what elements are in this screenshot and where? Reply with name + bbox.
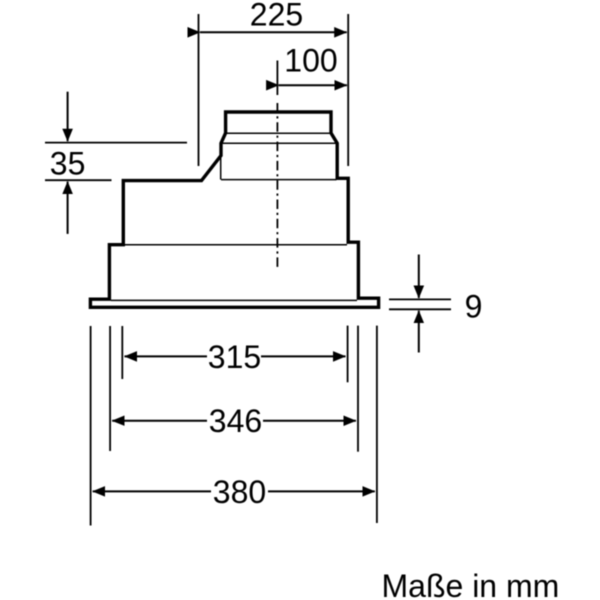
dim 35 upper arrow	[67, 92, 69, 142]
centerline stub	[276, 61, 278, 96]
dim 346 left arrow line	[112, 420, 207, 422]
svg-text:315: 315	[208, 339, 261, 375]
dim 225 left extension line	[198, 14, 200, 166]
dim 380 right arrow line	[268, 490, 375, 492]
dim 35 lower arrow	[67, 182, 69, 234]
dim 35 upper reference line	[45, 142, 187, 144]
hood top hidden edge	[221, 179, 337, 181]
dim 9 upper arrow	[418, 255, 420, 299]
svg-text:35: 35	[50, 146, 86, 182]
dim 35 lower reference line	[45, 179, 112, 181]
dim 9 top line	[389, 298, 451, 300]
hood outline	[90, 112, 378, 307]
bottom extension line left 380	[90, 326, 92, 526]
dim 100 arrow line	[279, 84, 347, 86]
dim 225 arrow line	[200, 31, 347, 33]
dim 225 right extension line	[347, 14, 349, 166]
svg-text:100: 100	[284, 43, 337, 79]
flange top thin line	[111, 299, 357, 301]
bottom extension line right 380	[376, 326, 378, 523]
svg-text:9: 9	[465, 289, 483, 325]
dim 9 lower arrow	[418, 311, 420, 353]
svg-text:346: 346	[209, 403, 262, 439]
dim 9 bottom line	[389, 308, 451, 310]
bottom extension line right 315	[347, 326, 349, 383]
svg-text:225: 225	[250, 0, 303, 32]
bottom extension line left 315	[121, 326, 123, 379]
dim 315 left arrow line	[125, 355, 208, 357]
svg-text:Maße in mm: Maße in mm	[382, 568, 560, 600]
collar flare upper thin line	[226, 132, 331, 134]
body step thin line	[125, 244, 347, 246]
bottom extension line right 346	[357, 326, 359, 452]
bottom extension line left 346	[109, 326, 111, 451]
svg-text:380: 380	[213, 474, 266, 510]
collar flare lower thin line	[222, 142, 337, 144]
dim 380 left arrow line	[93, 490, 211, 492]
hidden collar left edge	[220, 150, 222, 180]
dim 315 right arrow line	[261, 355, 346, 357]
dim 346 right arrow line	[263, 420, 356, 422]
centerline dash-dot	[276, 103, 278, 268]
